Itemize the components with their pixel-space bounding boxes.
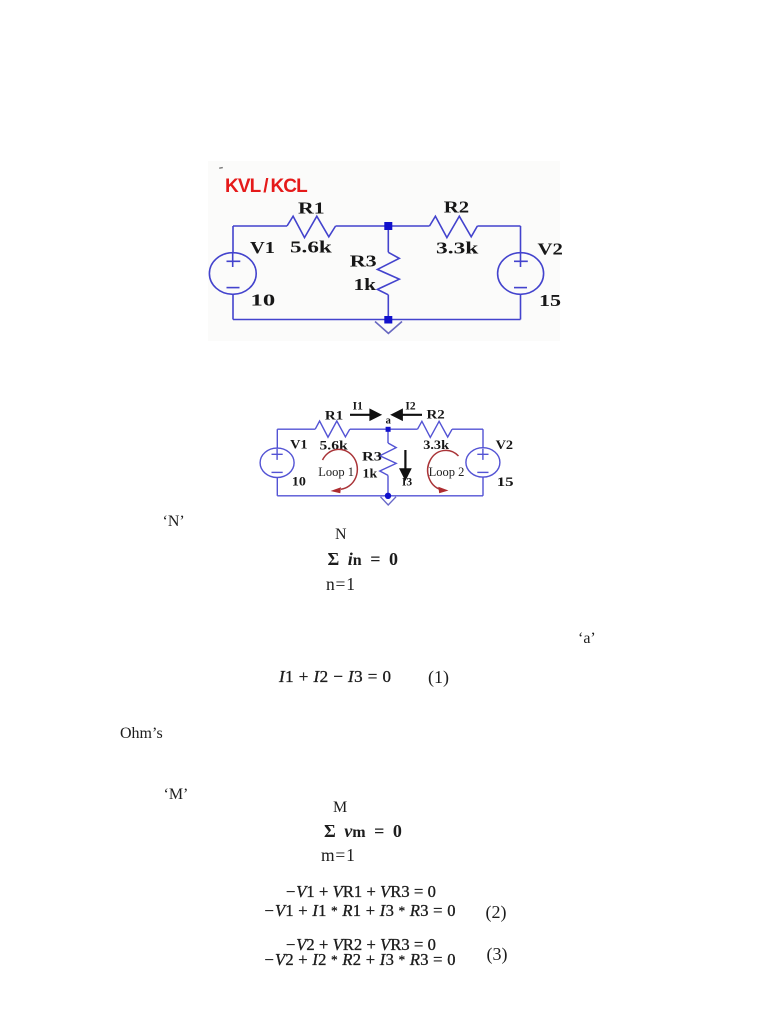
text 'M' [164,786,189,804]
equation number 2 [486,902,507,923]
wire top left [233,225,287,227]
svg-text:V2: V2 [496,437,514,451]
svg-text:V1: V1 [250,238,275,257]
wire top left 2 [277,428,315,430]
source V1 circle 2 [260,448,294,477]
wire left lower [232,294,234,319]
resistor R2 zigzag 2 [418,421,453,437]
wire top right 2 [452,428,483,430]
V2 minus 2 [477,471,488,473]
svg-text:R1: R1 [325,409,343,423]
equation 3 line 1 [285,935,436,955]
svg-text:R3: R3 [362,450,382,464]
sum equation v [324,821,402,842]
resistor R1 zigzag 2 [315,421,350,437]
ground symbol 2 [381,497,397,505]
node a dot [386,427,391,432]
svg-text:10: 10 [251,290,276,309]
wire right vertical 2 [482,429,484,448]
svg-text:Loop 1: Loop 1 [318,465,354,479]
resistor R3 zigzag [377,252,399,294]
wire R3 top stub [387,226,389,252]
source V1 circle [209,253,256,295]
svg-text:a: a [386,416,392,427]
svg-text:1k: 1k [363,466,378,480]
sum equation i [328,549,398,570]
wire left vertical 2 [276,429,278,448]
image background [208,161,560,341]
wire right lower [520,294,522,319]
wire top right [477,225,520,227]
V2 plus 2 [477,449,488,460]
svg-text:Loop 2: Loop 2 [429,465,465,479]
resistor R1 zigzag [287,216,336,237]
svg-text:15: 15 [497,476,514,490]
svg-text:5.6k: 5.6k [290,238,333,256]
ground symbol [375,322,402,334]
source V2 circle 2 [466,448,500,477]
wire right lower 2 [482,477,484,496]
svg-text:R1: R1 [298,200,325,218]
resistor R2 zigzag [430,216,478,237]
svg-text:V1: V1 [290,437,308,451]
current arrow I3 [401,450,410,479]
wire bottom 2 [277,495,483,497]
source V2 circle [498,253,544,295]
wire bottom [233,319,521,321]
svg-text:V2: V2 [538,240,563,259]
svg-text:R3: R3 [350,252,377,271]
text 'a' [578,630,596,648]
sum limit M [333,799,347,817]
V1 minus sign [227,287,240,289]
V1 minus 2 [272,471,283,473]
equation 3 line 2 [264,950,456,970]
V2 minus sign [514,287,527,289]
svg-text:15: 15 [539,291,561,310]
equation 1 [279,667,392,687]
equation 2 line 2 [264,901,456,921]
loop 1 arrowhead [331,487,342,493]
text 'N' [163,513,185,531]
current arrow I2 [393,410,422,419]
V1 plus 2 [272,449,283,460]
svg-text:R2: R2 [427,408,445,422]
sum lower limit n=1 [326,574,356,595]
wire R3 bottom stub [387,295,389,320]
loop 1 arrow arc [323,449,358,489]
wire right vertical [520,226,522,253]
node bottom dot 2 [385,493,391,499]
wire top middle 2 [350,428,418,430]
node square top [384,222,392,230]
wire left vertical [232,226,234,253]
svg-text:KVL / KCL: KVL / KCL [225,176,308,197]
svg-text:R2: R2 [444,198,469,217]
svg-text:3.3k: 3.3k [436,239,479,257]
circuit schematic image 2 (loops) [260,421,500,505]
wire R3 top stub 2 [387,429,389,443]
V2 plus sign [514,253,528,267]
node square bottom [384,316,392,324]
small gray dash artifact [219,167,223,170]
resistor R3 zigzag 2 [380,443,396,475]
svg-text:I1: I1 [353,401,363,413]
loop 2 arrow arc [428,450,459,489]
V1 plus sign [227,253,241,267]
current arrow I1 [350,410,380,419]
svg-text:I3: I3 [402,477,412,489]
wire left lower 2 [276,478,278,496]
svg-text:1k: 1k [354,276,377,295]
sum limit N [335,526,347,544]
equation number 3 [487,944,508,965]
wire R3 bottom stub 2 [387,475,389,495]
equation 2 line 1 [285,882,436,902]
wire top middle [336,225,430,227]
equation number 1 [428,667,449,688]
loop 2 arrowhead [438,487,448,493]
text Ohm's [120,725,163,743]
sum lower limit m=1 [321,845,356,866]
svg-text:I2: I2 [405,401,415,413]
svg-text:10: 10 [292,474,306,488]
